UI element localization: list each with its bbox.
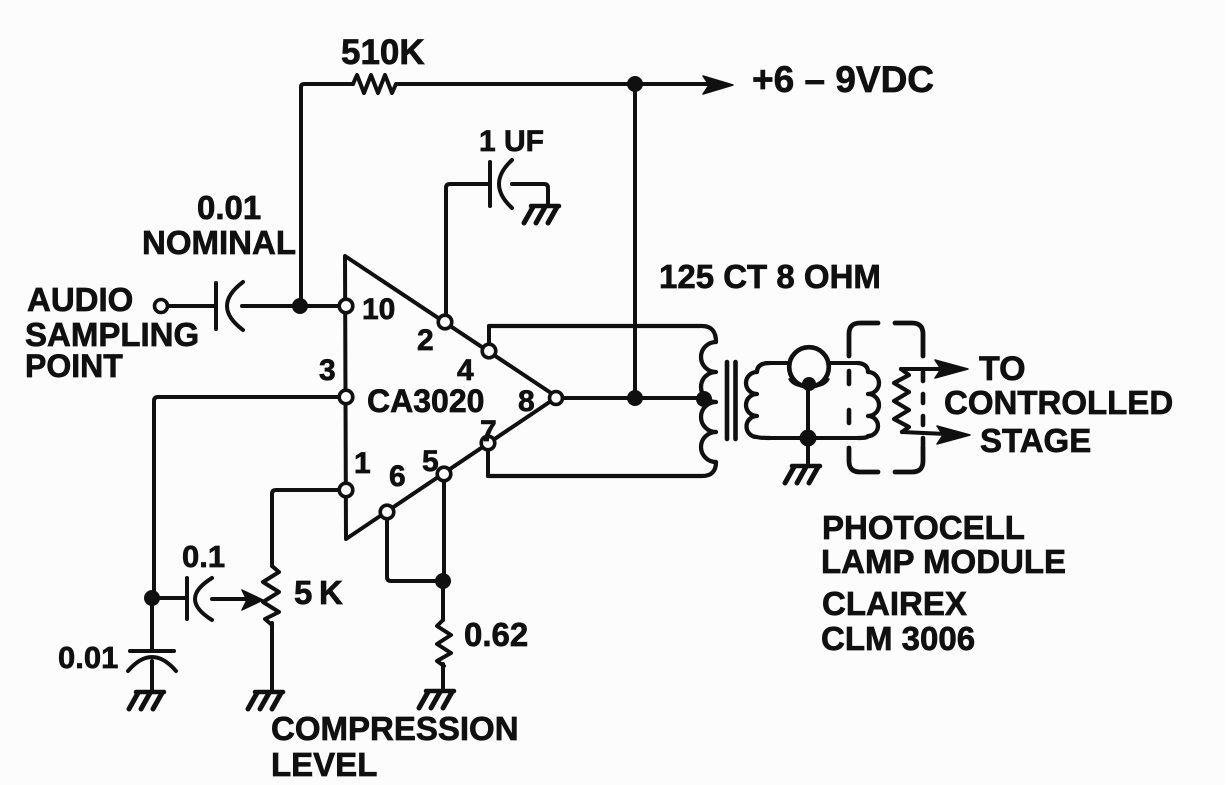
junction dot node A (292, 298, 308, 314)
junction dot lamp ground (800, 430, 817, 447)
resistor R1 510K zigzag (353, 75, 396, 93)
svg-text:1 UF: 1 UF (479, 125, 544, 158)
svg-text:AUDIO: AUDIO (27, 281, 133, 318)
pin 10 circle (339, 299, 353, 313)
wire: pin 2 up to 1UF cap (446, 184, 488, 315)
svg-text:CLM 3006: CLM 3006 (821, 620, 975, 657)
capacitor C3 0.1 (185, 578, 189, 619)
lamp DS1 base cup (790, 378, 828, 386)
arrowhead: supply (703, 76, 733, 94)
wire: pin 1 to 5K pot top (272, 490, 340, 566)
svg-text:125 CT 8 OHM: 125 CT 8 OHM (659, 258, 881, 295)
svg-text:510K: 510K (341, 33, 425, 72)
junction dot node C (435, 573, 451, 589)
capacitor C2 1UF (488, 162, 492, 206)
wire: pin 5 down to node C (442, 474, 446, 581)
potentiometer R2 5K zigzag (263, 566, 279, 625)
svg-text:2: 2 (417, 324, 434, 357)
pin 8 circle (550, 392, 563, 405)
wire: 1UF to ground (512, 184, 548, 205)
pin 6 circle (380, 505, 394, 519)
wire: photocell bottom lead to arrow (902, 432, 946, 434)
svg-text:LAMP MODULE: LAMP MODULE (821, 543, 1066, 580)
svg-text:8: 8 (518, 385, 535, 418)
svg-text:0.1: 0.1 (182, 539, 225, 574)
svg-text:0.01: 0.01 (58, 640, 118, 675)
ground for 1UF (524, 206, 559, 223)
arrowhead: output top (935, 360, 968, 378)
wire: 0.1 cap branch from node B (152, 596, 186, 600)
wire: pin 6 down and over to pin5 line (387, 512, 443, 581)
svg-text:CLAIREX: CLAIREX (822, 585, 967, 622)
pin 7 circle (481, 436, 495, 450)
pin 2 circle (438, 315, 452, 329)
svg-text:NOMINAL: NOMINAL (142, 224, 296, 261)
arrowhead: output bottom (937, 426, 970, 444)
resistor R3 0.62 zigzag (437, 620, 451, 666)
ground for 0.01 (129, 692, 164, 709)
wire: supply rail from resistor to arrow (398, 82, 714, 86)
ground for lamp (785, 466, 820, 483)
pin 1 circle (339, 483, 353, 497)
junction dot supply rail (627, 76, 643, 92)
svg-text:STAGE: STAGE (980, 422, 1091, 459)
capacitor C4 0.01 bottom (150, 598, 154, 649)
transformer T1 secondary (746, 363, 770, 438)
wire: 0.62 to ground (441, 664, 445, 691)
svg-text:1: 1 (354, 447, 371, 480)
svg-text:0.62: 0.62 (464, 616, 528, 653)
wire: secondary bottom lead (766, 436, 858, 440)
svg-text:5 K: 5 K (294, 574, 343, 611)
svg-text:LEVEL: LEVEL (271, 746, 377, 783)
wire: node C to resistor (441, 581, 445, 620)
svg-text:CA3020: CA3020 (367, 383, 484, 419)
photocell PC1 zigzag (894, 369, 909, 432)
module bracket left dashed line (847, 371, 852, 448)
transformer T1 core (727, 362, 736, 439)
module bracket right solid corners (895, 323, 923, 472)
capacitor C1 0.01 NOMINAL (214, 283, 218, 329)
lamp DS1 bulb circle (789, 347, 829, 387)
wire: secondary top lead (766, 361, 858, 365)
wire: pin 8 to transformer centre tap (562, 396, 705, 400)
svg-text:COMPRESSION: COMPRESSION (271, 710, 519, 747)
module bracket left solid corners (849, 323, 878, 472)
pin 5 circle (437, 467, 451, 481)
svg-text:+6 – 9VDC: +6 – 9VDC (752, 59, 934, 100)
svg-text:3: 3 (319, 354, 336, 387)
junction dot node B (144, 590, 160, 606)
svg-text:0.01: 0.01 (197, 189, 261, 226)
wire: supply vertical drop to pin8 line (633, 84, 637, 398)
wire: pot bottom to ground (270, 623, 274, 692)
module bracket right dashed line (921, 372, 926, 448)
svg-text:TO: TO (979, 350, 1026, 388)
pin 3 circle (339, 390, 353, 404)
svg-text:7: 7 (480, 415, 497, 448)
ground for 0.62 (419, 691, 454, 708)
svg-text:4: 4 (457, 354, 474, 387)
transformer T1 primary with connection rectangle (488, 326, 716, 476)
wire: pin 4 stub up (487, 326, 491, 351)
wire: photocell top lead to arrow (901, 367, 944, 371)
svg-text:PHOTOCELL: PHOTOCELL (822, 509, 1025, 546)
terminal: audio input (155, 300, 168, 313)
wire: audio input to pin 10 (168, 304, 214, 308)
svg-text:5: 5 (422, 445, 439, 478)
wire: pin 3 to left column (154, 397, 340, 598)
svg-text:CONTROLLED: CONTROLLED (944, 384, 1173, 421)
svg-text:POINT: POINT (25, 348, 123, 384)
wire: lamp centre stem to ground (806, 386, 810, 465)
junction dot centre tap (696, 391, 712, 407)
op-amp U1 CA3020 triangle (345, 256, 557, 539)
wire: 0.1 cap to wiper arrow (212, 597, 246, 601)
pin 4 circle (482, 344, 496, 358)
arrowhead: wiper (242, 590, 263, 610)
ground for pot (248, 692, 283, 709)
lamp DS1 centre dot (802, 377, 816, 391)
junction dot pin8 line (627, 390, 643, 406)
wire: feedback top wire left segment with corner down to node A (301, 84, 353, 306)
svg-text:10: 10 (362, 293, 395, 326)
svg-text:6: 6 (389, 460, 406, 493)
wire: pin 7 stub down (486, 443, 490, 476)
lamp coil inside module (858, 363, 879, 438)
